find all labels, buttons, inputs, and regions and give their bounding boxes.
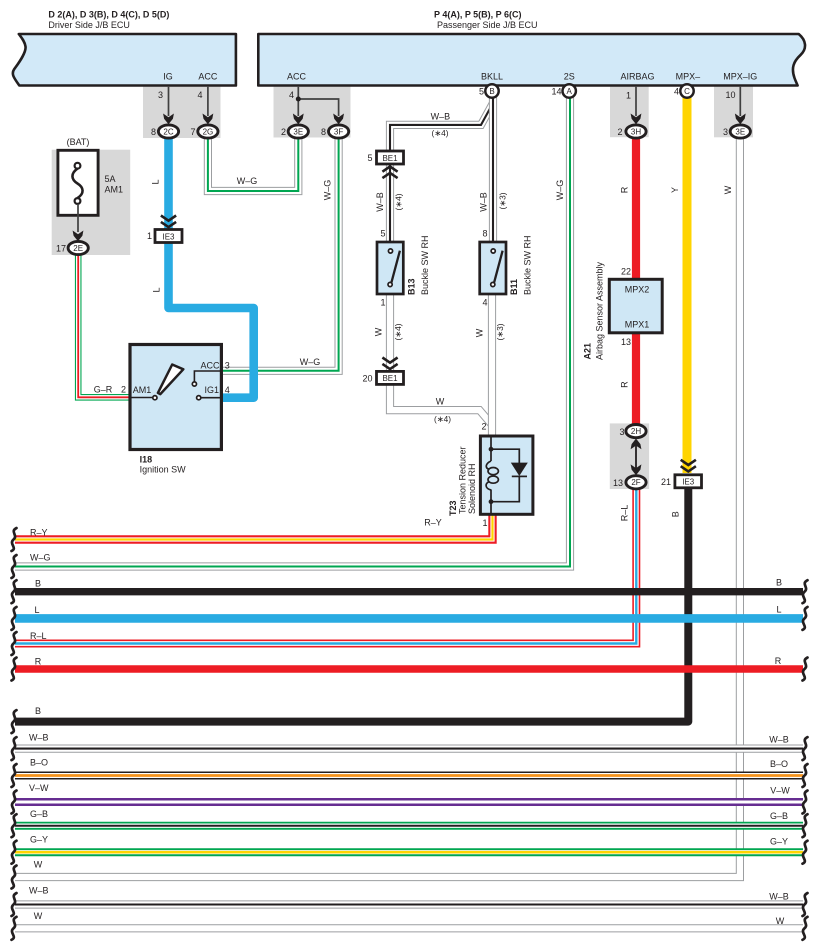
svg-text:MPX–IG: MPX–IG — [723, 72, 757, 82]
connector shading box: passenger ACC connectors 3E 3F — [274, 86, 351, 138]
svg-text:(∗4): (∗4) — [394, 193, 404, 210]
svg-text:IG1: IG1 — [204, 385, 219, 395]
svg-text:2G: 2G — [203, 127, 214, 136]
svg-text:W–B: W–B — [29, 733, 49, 743]
wire W-G: circle A (2S) down to W-G bus — [15, 97, 570, 567]
connector oval 3F — [329, 125, 349, 138]
svg-text:3: 3 — [619, 427, 624, 437]
I18 internal contacts and key lever — [131, 365, 221, 400]
wire R-L: connector 2F down to R-L bus, left — [15, 488, 636, 644]
svg-text:8: 8 — [151, 127, 156, 137]
svg-text:(∗4): (∗4) — [393, 323, 403, 340]
svg-text:1: 1 — [380, 298, 385, 308]
svg-text:AM1: AM1 — [133, 385, 152, 395]
svg-text:W–B: W–B — [479, 192, 489, 212]
bus wire B (upper) — [15, 588, 803, 595]
svg-text:T23: T23 — [448, 500, 458, 516]
svg-text:L: L — [34, 605, 39, 615]
svg-text:ACC: ACC — [198, 72, 218, 82]
svg-text:P 4(A), P 5(B), P 6(C): P 4(A), P 5(B), P 6(C) — [434, 10, 522, 20]
svg-text:V–W: V–W — [29, 783, 49, 793]
solenoid T23 box — [480, 436, 533, 514]
svg-text:4: 4 — [674, 87, 679, 97]
svg-text:2: 2 — [481, 422, 486, 432]
wire-break squiggles (right edge) — [803, 580, 808, 940]
connector circle C — [680, 84, 693, 97]
svg-text:I18: I18 — [140, 455, 153, 465]
connector shading box: fuse AM1 / 2E — [52, 150, 131, 255]
junction dot (ACC passenger) — [296, 97, 301, 102]
pin stub ACC 4 with arrow into 2G — [207, 87, 209, 116]
svg-text:21: 21 — [661, 477, 671, 487]
svg-text:A21: A21 — [583, 343, 593, 360]
svg-text:Buckle SW RH: Buckle SW RH — [420, 235, 430, 295]
wire B: connector IE3 21 down to lower B bus, left — [15, 487, 688, 722]
svg-text:22: 22 — [621, 267, 631, 277]
svg-text:W: W — [475, 328, 485, 337]
connector box IE3 21 — [675, 475, 702, 488]
connector oval 3E (MPX-IG) — [730, 125, 750, 138]
wire R: connector 3H down to MPX2 pin 22 — [632, 138, 640, 280]
ignition switch I18 box — [130, 345, 221, 450]
svg-text:14: 14 — [551, 87, 561, 97]
fuse AM1 5A — [58, 150, 98, 215]
svg-text:2C: 2C — [163, 127, 173, 136]
connector oval 3E (ACC) — [288, 125, 308, 138]
chevron arrows into IE3 1 — [161, 216, 176, 228]
connector circle A — [563, 84, 576, 97]
svg-text:2S: 2S — [564, 72, 575, 82]
svg-text:IE3: IE3 — [682, 478, 695, 487]
chevron arrows into IE3 21 — [681, 460, 696, 472]
T23 junction dots — [489, 447, 494, 452]
block D: Driver Side J/B ECU — [13, 34, 236, 86]
svg-text:4: 4 — [289, 90, 294, 100]
svg-text:3: 3 — [225, 361, 230, 371]
svg-text:B: B — [35, 579, 41, 589]
wire R-Y: T23 pin 1 down to R-Y bus, left — [15, 514, 493, 540]
svg-text:Driver Side J/B ECU: Driver Side J/B ECU — [48, 20, 130, 30]
svg-text:Buckle SW RH: Buckle SW RH — [523, 235, 533, 295]
svg-text:7: 7 — [190, 127, 195, 137]
svg-text:B11: B11 — [509, 279, 519, 295]
double arrow between 2H and 2F — [635, 443, 637, 469]
svg-text:W: W — [776, 916, 785, 926]
svg-text:B–O: B–O — [770, 759, 788, 769]
pin stub 2S 14 to circle A — [568, 87, 570, 90]
svg-text:W–B: W–B — [769, 735, 789, 745]
svg-text:B13: B13 — [407, 278, 417, 295]
svg-text:MPX2: MPX2 — [625, 285, 650, 295]
svg-text:G–B: G–B — [30, 809, 48, 819]
svg-text:G–B: G–B — [770, 811, 788, 821]
bus wire V-W — [15, 798, 803, 806]
bus wire W-B (row 1) — [15, 744, 803, 752]
svg-text:AM1: AM1 — [105, 185, 124, 195]
svg-text:(∗3): (∗3) — [495, 323, 505, 340]
svg-text:8: 8 — [482, 229, 487, 239]
svg-text:3: 3 — [723, 127, 728, 137]
switch contacts B11 — [491, 249, 503, 287]
chevron arrows into BE1 20 — [382, 358, 397, 370]
svg-text:4: 4 — [225, 385, 230, 395]
svg-text:B: B — [671, 511, 681, 517]
svg-text:V–W: V–W — [770, 786, 790, 796]
T23 internal circuit: coil and diode — [486, 436, 527, 514]
wire G-R: connector 2E down then right to I18 AM1 pin 2 — [78, 253, 131, 397]
svg-text:20: 20 — [362, 374, 372, 384]
svg-text:C: C — [684, 87, 690, 96]
pin stub BKLL 5 to circle B — [491, 87, 493, 90]
svg-text:2: 2 — [281, 127, 286, 137]
svg-text:W: W — [374, 327, 384, 336]
svg-text:W–G: W–G — [555, 180, 565, 201]
svg-text:1: 1 — [626, 91, 631, 101]
svg-text:2: 2 — [617, 127, 622, 137]
svg-text:(∗4): (∗4) — [431, 128, 448, 138]
svg-text:B: B — [35, 706, 41, 716]
svg-text:R: R — [35, 657, 42, 667]
switch contacts B13 — [388, 249, 400, 287]
connector box BE1 20 — [377, 371, 404, 384]
svg-text:5A: 5A — [105, 174, 116, 184]
pin stub IG 3 with arrow into 2C — [168, 87, 170, 116]
svg-text:3H: 3H — [631, 127, 641, 136]
svg-text:13: 13 — [621, 337, 631, 347]
svg-text:2F: 2F — [631, 478, 640, 487]
svg-text:W: W — [34, 911, 43, 921]
svg-text:ACC: ACC — [287, 72, 307, 82]
svg-text:13: 13 — [613, 478, 623, 488]
svg-text:B: B — [776, 578, 782, 588]
svg-text:4: 4 — [482, 298, 487, 308]
connector box IE3 1 — [155, 230, 182, 243]
svg-text:W–B: W–B — [375, 192, 385, 212]
svg-text:R–L: R–L — [620, 505, 630, 522]
svg-text:(∗3): (∗3) — [498, 192, 508, 209]
buckle switch B11 box — [480, 242, 506, 294]
wire W-B: circle B down to buckle SW B11 pin 8 — [489, 97, 497, 243]
svg-text:B–O: B–O — [30, 758, 48, 768]
svg-text:MPX1: MPX1 — [625, 320, 650, 330]
svg-text:R–L: R–L — [30, 631, 47, 641]
svg-text:W–G: W–G — [300, 357, 321, 367]
bus wire R (upper) — [15, 665, 803, 672]
svg-text:L: L — [151, 179, 161, 184]
svg-text:L: L — [151, 287, 161, 292]
svg-text:W–G: W–G — [237, 176, 258, 186]
connector circle B — [485, 84, 498, 97]
block P: Passenger Side J/B ECU — [258, 34, 805, 86]
svg-text:W: W — [34, 860, 43, 870]
connector box BE1 5 — [377, 151, 404, 164]
svg-text:W: W — [723, 185, 733, 194]
bus wire W (bottom) — [15, 924, 803, 932]
T23 diode — [511, 463, 528, 476]
svg-text:W–B: W–B — [29, 886, 49, 896]
svg-text:3: 3 — [158, 90, 163, 100]
svg-text:W–B: W–B — [769, 892, 789, 902]
wire W-B: connector BE1 5 down to buckle SW B13 pin 5 — [386, 163, 394, 243]
chevron arrows into BE1 5 — [382, 167, 397, 179]
pin stub ACC 4 (passenger) with junction and arrows into 3E and 3F — [297, 87, 299, 116]
svg-text:Airbag Sensor Assembly: Airbag Sensor Assembly — [595, 261, 605, 360]
wire-break squiggles (left edge) — [12, 528, 17, 940]
svg-text:W: W — [436, 397, 445, 407]
connector oval 2H — [626, 425, 646, 438]
wire W: buckle SW B13 pin 1 down to connector BE1 pin 20 — [386, 294, 394, 373]
svg-text:G–R: G–R — [94, 385, 113, 395]
svg-text:(BAT): (BAT) — [67, 137, 90, 147]
svg-text:17: 17 — [56, 244, 66, 254]
svg-text:L: L — [776, 605, 781, 615]
svg-text:Solenoid RH: Solenoid RH — [467, 463, 477, 514]
wire W-B branch: circle B to connector BE1 pin 5 — [390, 103, 493, 152]
svg-text:R–Y: R–Y — [424, 518, 442, 528]
connector shading box: 2H/2F connectors — [610, 423, 649, 489]
connector shading box: driver IG/ACC connectors 2C 2G — [143, 86, 221, 139]
wire L: connector 2C down through IE3 to I18, over to IG1 pin 4 — [169, 136, 254, 398]
wire W: connector BE1 20 down, right, to T23 pin 2 — [390, 384, 492, 425]
svg-text:Y: Y — [670, 187, 680, 193]
wire W: connector 3E (MPX-IG) down to W bus, left — [15, 138, 740, 878]
svg-text:3F: 3F — [334, 127, 343, 136]
bus wire B-O — [15, 772, 803, 780]
svg-text:3E: 3E — [735, 127, 745, 136]
svg-text:A: A — [567, 87, 573, 96]
svg-text:IG: IG — [163, 72, 173, 82]
pin stub MPX-IG 10 with arrow into 3E — [739, 87, 741, 116]
svg-text:8: 8 — [321, 127, 326, 137]
bus wire G-Y — [15, 848, 803, 856]
bus wire L — [15, 614, 803, 623]
svg-text:G–Y: G–Y — [30, 835, 48, 845]
svg-text:W–G: W–G — [30, 553, 51, 563]
connector oval 2E — [68, 241, 88, 254]
svg-text:5: 5 — [380, 229, 385, 239]
airbag sensor assembly box MPX2/MPX1 — [609, 279, 662, 333]
svg-text:Passenger Side J/B ECU: Passenger Side J/B ECU — [437, 20, 538, 30]
pin stub AIRBAG 1 with arrow into 3H — [635, 87, 637, 116]
wire W-G: connector 2G down, right, up to connector 3E — [208, 137, 298, 191]
svg-text:W–G: W–G — [323, 180, 333, 201]
connector shading box: MPX-IG connector 3E — [714, 86, 753, 138]
connector oval 2G — [198, 125, 218, 138]
svg-text:BE1: BE1 — [382, 154, 398, 163]
bus wire W-B (row 2) — [15, 900, 803, 908]
svg-text:W–B: W–B — [431, 112, 451, 122]
svg-text:ACC: ACC — [200, 361, 220, 371]
connector oval 3H — [626, 125, 646, 138]
connector shading box: AIRBAG connector 3H — [610, 86, 649, 138]
svg-text:R: R — [620, 186, 630, 193]
svg-text:R: R — [775, 656, 782, 666]
svg-text:2E: 2E — [73, 244, 83, 253]
connector oval 2F — [626, 476, 646, 489]
wire R: MPX1 pin 13 down to connector 2H — [632, 332, 640, 426]
svg-text:BE1: BE1 — [382, 374, 398, 383]
svg-text:10: 10 — [725, 90, 735, 100]
svg-text:B: B — [489, 87, 494, 96]
svg-text:(∗4): (∗4) — [434, 414, 451, 424]
svg-text:MPX–: MPX– — [676, 72, 701, 82]
svg-text:BKLL: BKLL — [481, 72, 503, 82]
svg-text:2H: 2H — [631, 427, 641, 436]
svg-text:IE3: IE3 — [162, 232, 175, 241]
svg-text:R–Y: R–Y — [30, 528, 48, 538]
svg-text:5: 5 — [479, 87, 484, 97]
svg-text:AIRBAG: AIRBAG — [620, 72, 654, 82]
pin stub MPX- 4 to circle C — [686, 87, 688, 90]
wire W-G: connector 3F down to ACC junction, left to I18 ACC pin 3 — [221, 137, 338, 371]
connector oval 2C — [158, 125, 178, 138]
wire Y: circle C (MPX-) down to connector IE3 21 — [683, 97, 692, 473]
buckle switch B13 box — [377, 242, 403, 294]
svg-text:5: 5 — [367, 153, 372, 163]
svg-text:R: R — [620, 381, 630, 388]
svg-text:3E: 3E — [293, 127, 303, 136]
svg-text:2: 2 — [121, 385, 126, 395]
svg-text:4: 4 — [197, 90, 202, 100]
svg-text:Ignition SW: Ignition SW — [140, 464, 187, 474]
bus wire G-B — [15, 822, 803, 830]
svg-text:D 2(A), D 3(B), D 4(C), D 5(D): D 2(A), D 3(B), D 4(C), D 5(D) — [48, 10, 169, 20]
svg-text:G–Y: G–Y — [770, 837, 788, 847]
wire: fuse to connector 2E with arrow — [77, 204, 79, 232]
svg-text:1: 1 — [147, 231, 152, 241]
svg-text:1: 1 — [482, 518, 487, 528]
svg-text:Tension Reducer: Tension Reducer — [458, 446, 468, 514]
wire W: buckle SW B11 pin 4 down to T23 pin 2 — [488, 294, 496, 437]
